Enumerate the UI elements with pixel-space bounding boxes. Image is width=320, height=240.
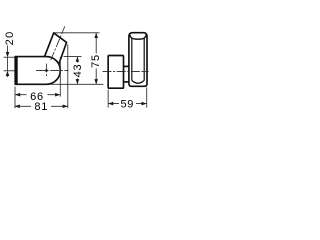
dim line 20 vertical (7, 46, 9, 78)
svg-text:75: 75 (90, 54, 102, 68)
tube slot bottom U-curve (132, 81, 144, 84)
tube bore inner wall right (143, 38, 145, 80)
dim line 43 (76, 57, 78, 85)
arrow 43 bottom (76, 79, 80, 84)
right view wall plate (edge-on) (108, 56, 123, 89)
arrow 43 top (76, 57, 80, 62)
dim line 59 (108, 103, 147, 105)
arrow 20 bottom (outside, pointing up) (6, 71, 10, 76)
stub axis dash-dot (51, 26, 65, 60)
left view body outline (rounded-end cylinder, top view) (15, 57, 60, 85)
extension line 43 top tick (64, 56, 82, 58)
neck bottom edge (124, 81, 129, 83)
extension line 81 right (67, 45, 69, 109)
angled stub (holder cone) top face and side edges (45, 33, 67, 64)
extension line 59 left (107, 90, 109, 108)
arrow 66 left (15, 93, 20, 97)
svg-text:20: 20 (4, 30, 16, 45)
svg-text:43: 43 (72, 64, 84, 78)
body left edge (thick, plate edge-on) (15, 57, 17, 85)
dim line 66 (15, 94, 60, 96)
tube top opening sag curve (130, 35, 147, 40)
extension line 66 right (59, 57, 61, 97)
dim line 81 (15, 105, 68, 107)
svg-text:59: 59 (120, 98, 134, 110)
extension line 20-dim bottom tick (4, 70, 15, 72)
arrow 75 top (94, 33, 98, 38)
centerline left view vertical (45, 64, 47, 78)
arrow 81 left (15, 105, 20, 109)
tube bore inner wall left (131, 38, 133, 80)
arrow 59 right (142, 102, 147, 106)
arrow 81 right (63, 105, 68, 109)
extension line bottom (43 bottom tick + 75 bottom) (50, 83, 103, 85)
center dot of circle (45, 69, 48, 72)
dim line 75 (95, 33, 97, 85)
neck top edge (124, 65, 129, 67)
extension line 20-dim top tick (4, 56, 15, 58)
arrow 59 left (108, 102, 113, 106)
extension line 59 right (146, 87, 148, 107)
svg-text:81: 81 (34, 101, 48, 113)
arrow 75 bottom (94, 79, 98, 84)
extension line 75 top (54, 32, 100, 34)
arrow 20 top (outside, pointing down) (6, 52, 10, 57)
centerline right view (103, 71, 149, 73)
arrow 66 right (55, 93, 60, 97)
extension line body-left down (14, 87, 16, 109)
centerline left view horizontal (36, 26, 149, 77)
right view holder tube outer (129, 33, 147, 87)
